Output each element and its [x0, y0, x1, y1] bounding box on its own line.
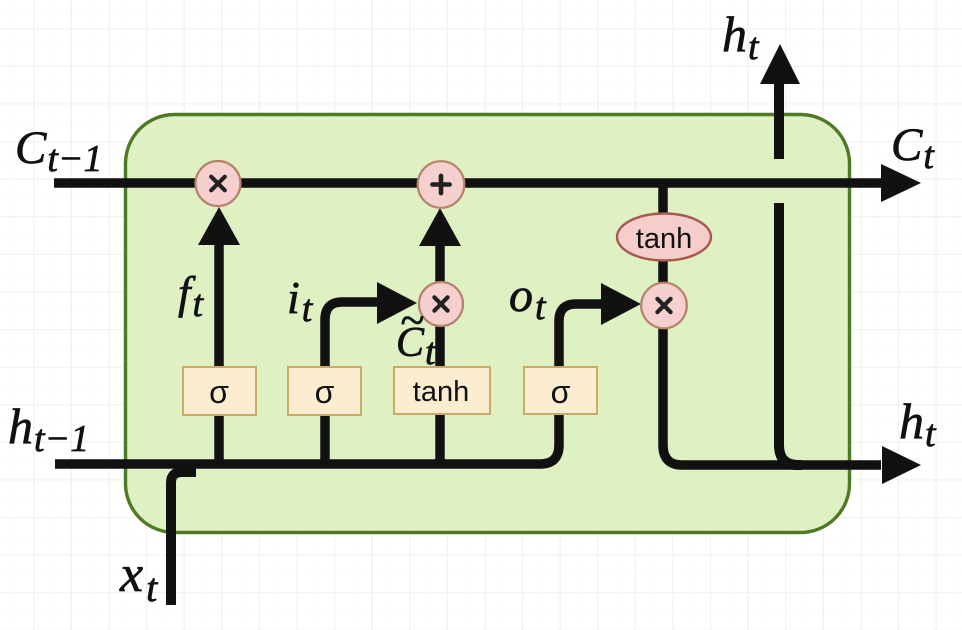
- svg-text:σ: σ: [209, 374, 229, 410]
- wire: forget gate vertical f: [214, 244, 224, 464]
- svg-text:xt: xt: [119, 546, 158, 610]
- wire: h_t up branch (lower segment joining output line): [779, 203, 802, 465]
- svg-text:σ: σ: [551, 374, 571, 410]
- sigma box (output gate): [524, 367, 597, 414]
- wire: input gate i with bend: [325, 302, 377, 464]
- wire: candidate column through tanh box up to add node: [435, 246, 445, 464]
- sigma box (input gate): [288, 367, 361, 415]
- multiply node (candidate): [419, 282, 463, 326]
- svg-text:ht: ht: [722, 6, 760, 68]
- arrowhead i into multiply: [377, 282, 417, 324]
- wire: tanh branch from C line down to output multiply and right to h_t: [663, 187, 881, 465]
- arrowhead o-gate into multiply: [601, 283, 641, 325]
- tanh box (candidate gate): [394, 367, 490, 414]
- arrowhead h_t top: [760, 44, 800, 84]
- add node: [418, 161, 465, 208]
- wire: x_t input from bottom: [171, 472, 196, 605]
- multiply node (output): [641, 283, 687, 329]
- svg-text:σ: σ: [315, 374, 335, 410]
- svg-text:Ct−1: Ct−1: [15, 122, 103, 180]
- svg-text:tanh: tanh: [636, 223, 692, 255]
- arrowhead f into multiply: [198, 207, 240, 245]
- wire: cell state line C (top horizontal): [54, 178, 881, 188]
- svg-text:Ct: Ct: [891, 119, 935, 177]
- svg-text:tanh: tanh: [413, 376, 469, 408]
- LSTM cell body: [126, 115, 850, 533]
- svg-text:ht: ht: [899, 393, 937, 455]
- arrowhead h_t right: [882, 446, 921, 484]
- svg-text:ht−1: ht−1: [8, 398, 89, 460]
- arrowhead C_t: [881, 164, 921, 202]
- sigma box (forget gate): [183, 367, 256, 415]
- tanh ellipse: [617, 214, 711, 261]
- multiply node (forget): [196, 161, 241, 206]
- wire: h_{t-1} bottom line into o-gate: [55, 304, 601, 464]
- wire: h_t up branch (upper segment above C line): [774, 84, 784, 159]
- arrowhead candidate into add: [419, 208, 461, 246]
- svg-text:~: ~: [400, 296, 424, 345]
